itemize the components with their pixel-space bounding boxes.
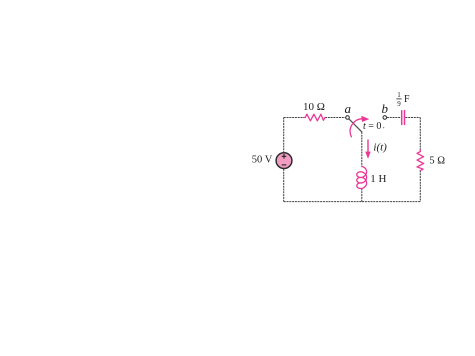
svg-text:9: 9 <box>397 100 401 108</box>
svg-text:1: 1 <box>397 91 401 99</box>
svg-text:10 Ω: 10 Ω <box>303 101 325 113</box>
svg-text:50 V: 50 V <box>252 154 273 165</box>
svg-text:1 H: 1 H <box>370 173 386 185</box>
svg-text:F: F <box>404 94 410 105</box>
svg-text:b: b <box>381 101 388 116</box>
svg-text:t = 0: t = 0 <box>363 121 381 132</box>
svg-text:5 Ω: 5 Ω <box>429 156 445 167</box>
svg-text:i(t): i(t) <box>373 142 387 154</box>
svg-text:a: a <box>345 101 352 116</box>
